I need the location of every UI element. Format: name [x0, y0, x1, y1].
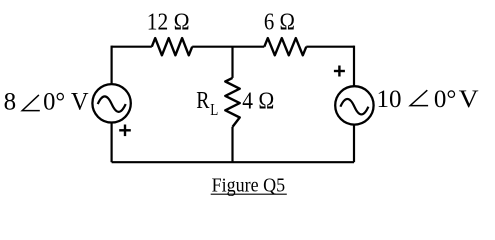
svg-text:R: R — [196, 88, 209, 114]
svg-text:6 Ω: 6 Ω — [264, 9, 295, 35]
label angle symbol left — [22, 95, 40, 111]
caption underline — [211, 193, 287, 195]
svg-text:L: L — [210, 100, 218, 119]
wire top-left segment — [112, 46, 152, 48]
svg-text:V: V — [459, 86, 479, 113]
wire left rail lower — [110, 122, 112, 163]
svg-text:0° V: 0° V — [43, 88, 89, 115]
source V2 sine — [340, 99, 368, 115]
source V1 sine — [98, 96, 126, 112]
svg-text:8: 8 — [4, 88, 17, 115]
source V1 circle — [92, 84, 130, 122]
wire top-middle segment — [192, 46, 264, 48]
polarity plus V2 — [334, 66, 345, 77]
wire right rail upper — [353, 46, 355, 87]
wire middle rail lower — [231, 127, 233, 162]
wire middle rail upper — [231, 47, 233, 78]
svg-text:4 Ω: 4 Ω — [242, 88, 274, 114]
wire left rail upper — [110, 46, 112, 85]
resistor 12 ohm zigzag — [152, 38, 192, 55]
source V2 circle — [335, 86, 373, 124]
svg-text:12 Ω: 12 Ω — [147, 10, 190, 36]
resistor 6 ohm zigzag — [264, 38, 306, 55]
label angle symbol right — [410, 90, 428, 105]
svg-text:10: 10 — [377, 86, 402, 113]
svg-text:Figure Q5: Figure Q5 — [212, 175, 286, 197]
wire right rail lower — [353, 124, 355, 163]
wire top-right segment — [306, 46, 354, 48]
svg-text:0°: 0° — [434, 86, 457, 113]
wire bottom — [112, 161, 354, 163]
polarity plus V1 — [119, 125, 131, 137]
resistor RL 4 ohm vertical zigzag — [225, 78, 239, 127]
